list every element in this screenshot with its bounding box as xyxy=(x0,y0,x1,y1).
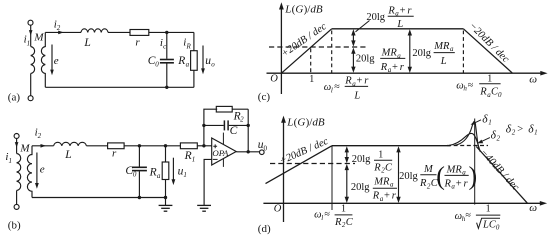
wire L to r xyxy=(108,31,130,33)
svg-text:C: C xyxy=(230,125,238,137)
svg-text:MR: MR xyxy=(433,41,450,52)
svg-text:2: 2 xyxy=(497,135,501,143)
resistor r (b) xyxy=(108,143,125,149)
bode falling segment (c) xyxy=(463,29,512,73)
svg-text:(d): (d) xyxy=(258,223,271,235)
svg-text:20lg: 20lg xyxy=(352,154,371,165)
svg-text:1: 1 xyxy=(341,204,346,215)
svg-text:): ) xyxy=(469,161,478,190)
bode flat segment (d) xyxy=(332,145,451,147)
svg-text:R: R xyxy=(186,42,192,50)
y-axis (d) xyxy=(283,122,285,223)
ground at op-amp (b) xyxy=(197,204,211,206)
svg-text:C: C xyxy=(346,217,354,228)
x-axis (d) xyxy=(263,202,540,204)
svg-text:r: r xyxy=(112,147,117,159)
svg-text:a: a xyxy=(186,61,190,69)
bode rising segment (c) xyxy=(281,29,331,73)
PANEL D xyxy=(258,113,547,235)
dashed flat continuation (d) xyxy=(447,145,488,147)
svg-text:20lg: 20lg xyxy=(351,182,370,193)
resonance curve delta2 (d) xyxy=(449,134,480,152)
resistor Ra (b) xyxy=(165,146,167,162)
feedback right vertical wire (b) xyxy=(247,109,249,152)
bode falling segment -40dB/dec (d) xyxy=(476,147,527,204)
svg-text:0: 0 xyxy=(133,171,137,179)
wire primary bottom xyxy=(30,74,32,96)
svg-text:20lg: 20lg xyxy=(356,54,375,65)
svg-text:OPA: OPA xyxy=(212,148,229,158)
inductor L (b) xyxy=(54,142,87,146)
transformer secondary coil (a) xyxy=(41,32,45,87)
ground at Ra node (b) xyxy=(165,198,167,206)
vertical line at omega-h (d) xyxy=(474,119,476,205)
PANEL B xyxy=(5,106,267,231)
svg-text:MR: MR xyxy=(373,176,390,187)
svg-text:r: r xyxy=(392,191,397,202)
svg-text:R: R xyxy=(380,62,388,73)
wire L to r (b) xyxy=(86,145,107,147)
wire R2 to right vertical (b) xyxy=(232,108,248,110)
svg-text:0: 0 xyxy=(496,224,500,232)
svg-text:G: G xyxy=(297,117,305,129)
svg-text:1: 1 xyxy=(486,204,491,215)
svg-text:dB: dB xyxy=(312,117,325,129)
svg-text:L: L xyxy=(353,90,360,101)
wire top (a) xyxy=(45,31,81,33)
svg-text:a: a xyxy=(390,181,394,189)
current arrow i1 (a) xyxy=(29,30,33,35)
corner vertical line at omega-l (d) xyxy=(331,146,333,210)
svg-text:0: 0 xyxy=(498,91,502,99)
svg-text:C: C xyxy=(385,162,393,173)
svg-text:2: 2 xyxy=(38,132,42,140)
svg-text:1: 1 xyxy=(192,155,196,163)
svg-text:1: 1 xyxy=(183,171,187,179)
feedback left vertical wire (b) xyxy=(204,109,217,146)
svg-text:+: + xyxy=(384,191,390,202)
double arrow full height (c) xyxy=(409,34,411,69)
double arrow dashed-to-axis (d) xyxy=(346,168,348,199)
op-amp minus marker (b) xyxy=(213,158,218,160)
svg-text:1: 1 xyxy=(534,129,538,137)
svg-text:>: > xyxy=(517,124,523,135)
node dot C right (b) xyxy=(247,124,250,127)
svg-text:G: G xyxy=(295,3,303,15)
bode rising segment (d) xyxy=(266,146,333,184)
node dot bottom Ra (b) xyxy=(164,196,167,199)
transformer secondary coil (b) xyxy=(27,146,32,198)
svg-text:M: M xyxy=(19,143,30,155)
transformer primary coil (b) xyxy=(17,154,21,191)
double arrow flat-to-dashed (d) xyxy=(346,151,348,160)
svg-text:a: a xyxy=(450,45,454,53)
voltage arrow u1 (b) xyxy=(172,158,174,180)
svg-text:1: 1 xyxy=(309,74,314,85)
capacitor C0 (a) xyxy=(166,32,168,58)
node dot top C0 (b) xyxy=(138,144,141,147)
current arrow i2 (a) xyxy=(58,31,64,35)
resonance curve delta1 (d) xyxy=(455,121,479,149)
svg-text:M: M xyxy=(33,32,44,44)
transformer primary coil (a) xyxy=(31,47,35,74)
node dot inverting input (b) xyxy=(202,144,205,147)
inductor L (a) xyxy=(81,29,108,33)
svg-text:1: 1 xyxy=(488,119,492,127)
wire r to node xyxy=(149,31,194,33)
svg-text:L: L xyxy=(286,117,293,129)
svg-text:R: R xyxy=(387,5,395,16)
svg-text:L: L xyxy=(64,149,71,161)
svg-text:R: R xyxy=(372,191,380,202)
svg-text:1: 1 xyxy=(27,39,31,47)
output wire (b) xyxy=(236,151,259,153)
svg-text:R: R xyxy=(479,87,487,98)
svg-text:L: L xyxy=(396,19,403,30)
wire primary top xyxy=(30,25,32,46)
op-amp power pin bottom (b) xyxy=(222,159,224,167)
resistor R2 (b) xyxy=(216,106,232,112)
resistor R1 (b) xyxy=(180,143,197,149)
current arrow i1 (b) xyxy=(15,142,19,148)
emf arrow e (b) xyxy=(36,153,38,184)
svg-text:M: M xyxy=(423,164,434,175)
svg-text:20lg: 20lg xyxy=(366,12,385,23)
svg-text:R: R xyxy=(149,166,157,178)
node dot bottom C0 (a) xyxy=(165,86,168,89)
svg-text:R: R xyxy=(184,150,192,162)
wire primary bottom (b) xyxy=(16,191,18,205)
svg-text:e: e xyxy=(40,164,45,176)
capacitor C (b) xyxy=(204,124,224,126)
node dot C left (b) xyxy=(202,124,205,127)
svg-text:−40dB / dec: −40dB / dec xyxy=(478,147,521,193)
svg-text:o: o xyxy=(211,60,215,68)
voltage arrow uo (a) xyxy=(202,46,204,69)
PANEL C xyxy=(258,2,548,103)
svg-text:l: l xyxy=(321,214,323,222)
resistor r (a) xyxy=(130,30,149,36)
terminal output (b) xyxy=(260,150,265,155)
node dot top Ra (b) xyxy=(164,144,167,147)
terminal top-left (b) xyxy=(14,134,19,139)
svg-text:+: + xyxy=(456,178,462,189)
non-inverting input wire (b) xyxy=(204,159,212,205)
svg-text:20lg: 20lg xyxy=(399,171,418,182)
svg-text:+: + xyxy=(357,76,363,87)
svg-text:O: O xyxy=(270,74,278,85)
terminal bottom-left (b) xyxy=(14,204,19,209)
svg-text:L: L xyxy=(440,56,447,67)
svg-text:1: 1 xyxy=(378,150,383,161)
wire top (b) xyxy=(32,145,54,147)
op-amp U1 triangle (b) xyxy=(212,138,237,165)
svg-text:2: 2 xyxy=(57,24,61,32)
svg-text:(a): (a) xyxy=(8,91,21,103)
svg-text:O: O xyxy=(274,203,282,214)
svg-text:a: a xyxy=(157,172,161,180)
svg-text:r: r xyxy=(364,76,369,87)
svg-text:R: R xyxy=(344,76,352,87)
svg-text:2: 2 xyxy=(240,116,244,124)
bode flat segment (c) xyxy=(332,28,464,30)
tall double arrow (d) xyxy=(398,151,400,199)
svg-text:R: R xyxy=(419,178,427,189)
y-axis (c) xyxy=(280,8,282,94)
resistor Ra (a) xyxy=(193,32,195,50)
svg-text:LC: LC xyxy=(482,219,497,230)
PANEL A xyxy=(8,18,215,103)
wire bottom (b) xyxy=(32,197,166,199)
svg-text:MR: MR xyxy=(446,164,463,175)
current arrow i2 (b) xyxy=(41,144,47,148)
svg-text:≈: ≈ xyxy=(334,82,340,93)
svg-text:≈: ≈ xyxy=(468,80,474,91)
svg-text:l: l xyxy=(331,86,333,94)
dashed level line (c) xyxy=(269,46,368,48)
wire primary top (b) xyxy=(16,139,18,154)
capacitor C0 (b) xyxy=(138,146,140,167)
node dot output (b) xyxy=(247,150,250,153)
svg-text:0: 0 xyxy=(155,61,159,69)
svg-text:R: R xyxy=(373,162,381,173)
node dot bottom C0 (b) xyxy=(138,196,141,199)
dashed vertical at omega-l (c) xyxy=(331,31,333,73)
terminal bottom-left (a) xyxy=(28,96,33,101)
svg-text:(c): (c) xyxy=(258,91,271,103)
op-amp power pin top (b) xyxy=(222,133,224,145)
svg-text:R: R xyxy=(444,178,452,189)
svg-text:dB: dB xyxy=(310,3,323,15)
svg-text:2: 2 xyxy=(512,129,516,137)
svg-text:1: 1 xyxy=(9,157,13,165)
wire bottom (a) xyxy=(45,86,194,88)
svg-text:r: r xyxy=(400,62,405,73)
svg-text:ω: ω xyxy=(529,74,537,86)
svg-text:+: + xyxy=(400,5,406,16)
wire R1 to op-amp (b) xyxy=(197,145,211,147)
svg-text:0: 0 xyxy=(264,144,268,152)
leader line to gap arrow (c) xyxy=(356,21,370,32)
dashed vertical at 1 (c) xyxy=(310,49,312,73)
op-amp plus marker (b) xyxy=(213,144,217,148)
svg-text:≈: ≈ xyxy=(324,209,330,220)
svg-text:L: L xyxy=(284,3,291,15)
x-axis (c) xyxy=(267,72,542,74)
svg-text:R: R xyxy=(177,55,185,67)
svg-text:r: r xyxy=(407,5,412,16)
svg-text:1: 1 xyxy=(487,73,492,84)
dashed vertical at omega-h (c) xyxy=(462,31,464,73)
emf arrow e (a) xyxy=(51,45,53,71)
dashed level line (d) xyxy=(270,163,355,165)
svg-text:L: L xyxy=(83,37,90,49)
svg-text:≈: ≈ xyxy=(465,210,471,221)
wire r to R1 (b) xyxy=(124,145,180,147)
double arrow flat-to-dashed (c) xyxy=(352,34,354,43)
svg-text:h: h xyxy=(463,85,467,93)
svg-text:(b): (b) xyxy=(8,220,21,232)
double arrow dashed-to-axis (c) xyxy=(352,52,354,69)
svg-text:ω: ω xyxy=(529,202,537,214)
svg-text:+: + xyxy=(392,62,398,73)
svg-text:−20dB / dec: −20dB / dec xyxy=(466,20,511,65)
svg-text:e: e xyxy=(54,55,59,67)
svg-text:R: R xyxy=(334,217,342,228)
svg-text:r: r xyxy=(135,36,140,48)
svg-text:20lg: 20lg xyxy=(412,48,431,59)
svg-text:MR: MR xyxy=(381,48,398,59)
terminal top-left (a) xyxy=(28,20,33,25)
node dot top C0 (a) xyxy=(165,31,168,34)
